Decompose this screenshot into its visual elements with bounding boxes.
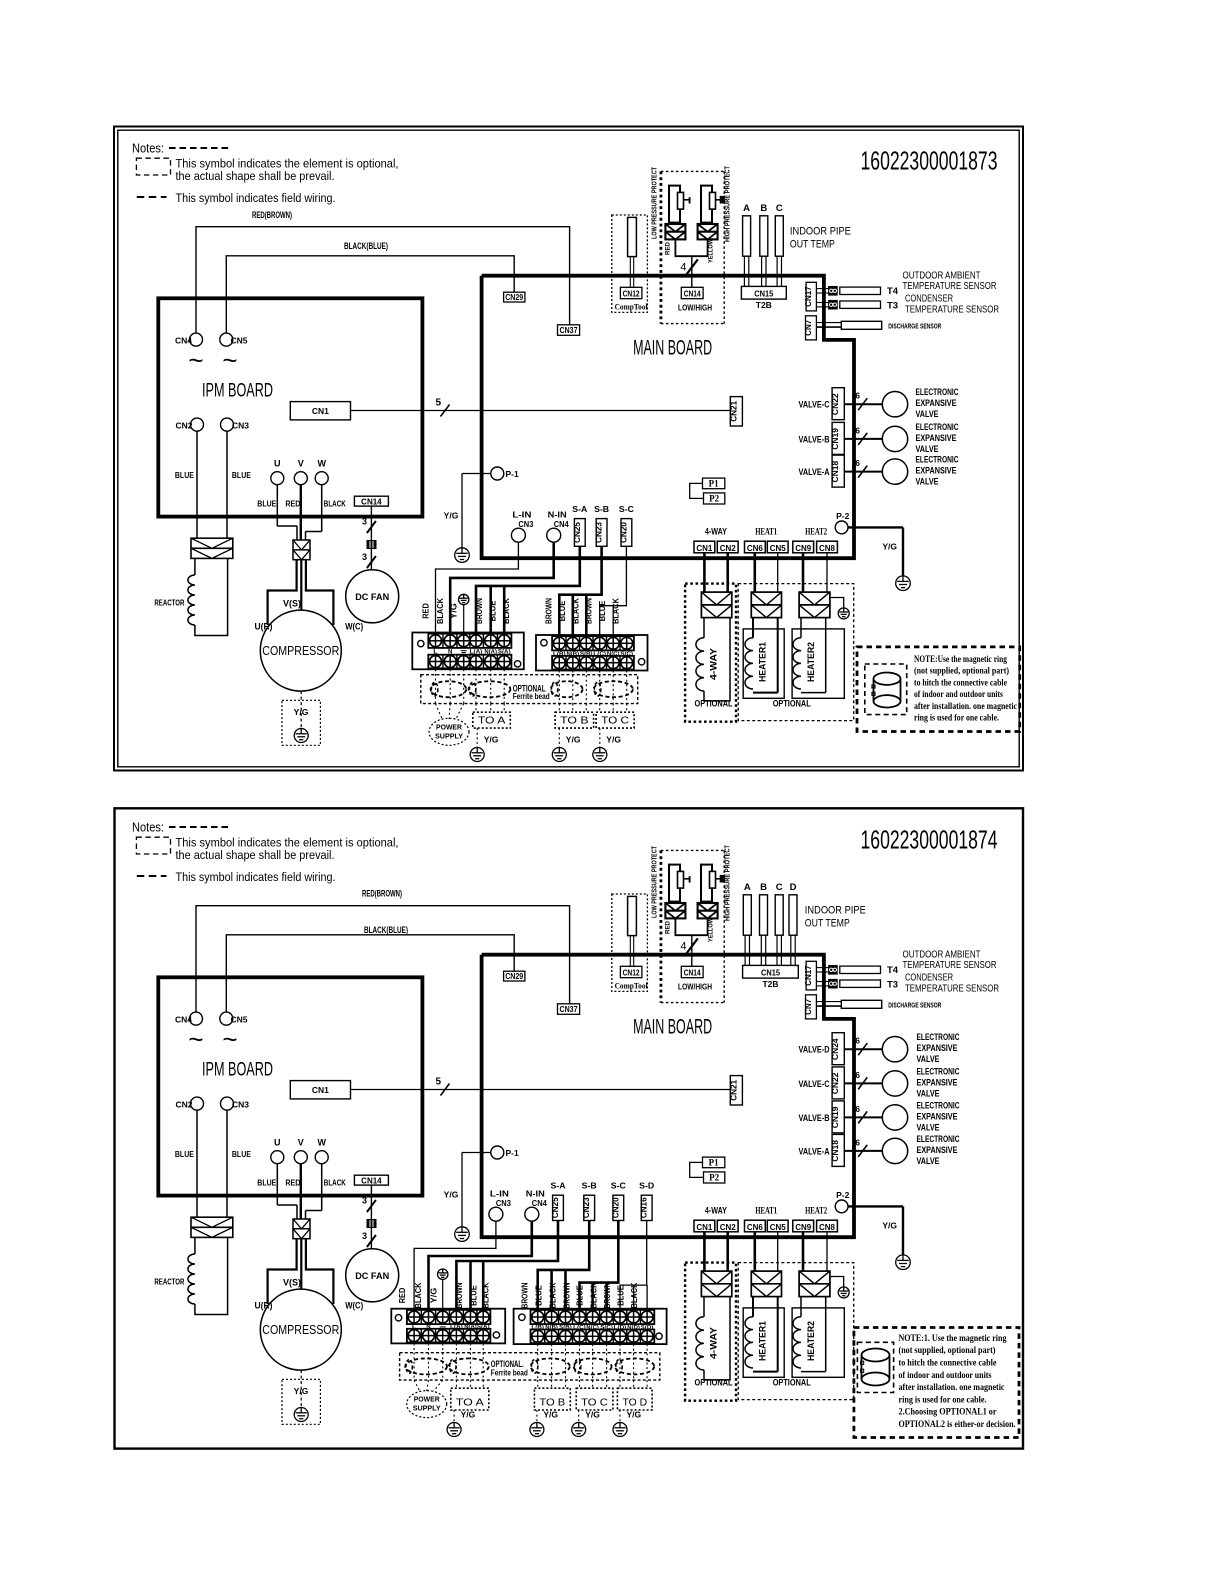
svg-text:C: C (776, 882, 783, 893)
svg-text:CompTool: CompTool (615, 982, 649, 991)
svg-text:Ferrite bead: Ferrite bead (513, 692, 550, 701)
svg-text:C: C (776, 203, 783, 214)
svg-text:6: 6 (855, 425, 860, 435)
svg-text:YELLOW: YELLOW (708, 239, 715, 263)
svg-text:CN1: CN1 (312, 406, 329, 416)
svg-text:BLACK: BLACK (571, 598, 580, 624)
svg-text:6: 6 (855, 458, 860, 468)
svg-text:P-2: P-2 (836, 1190, 850, 1200)
svg-text:TO A: TO A (456, 1397, 484, 1409)
svg-text:after installation. one magnet: after installation. one magnetic (914, 701, 1018, 712)
svg-text:NOTE:1. Use the magnetic ring: NOTE:1. Use the magnetic ring (899, 1333, 1007, 1344)
svg-text:T2B: T2B (762, 979, 778, 989)
svg-text:POWER: POWER (414, 1395, 441, 1404)
svg-text:BROWN: BROWN (603, 1282, 612, 1308)
svg-text:TO B: TO B (539, 1397, 565, 1409)
svg-text:BLUE: BLUE (257, 499, 276, 509)
svg-text:after installation. one magnet: after installation. one magnetic (899, 1382, 1006, 1393)
svg-text:CN5: CN5 (770, 1222, 786, 1232)
svg-text:VALVE: VALVE (916, 477, 939, 488)
svg-text:CN7: CN7 (804, 998, 813, 1015)
svg-text:N(B): N(B) (545, 1325, 558, 1331)
svg-text:RED: RED (398, 1287, 407, 1303)
svg-text:BLACK: BLACK (549, 1282, 558, 1308)
svg-text:CN29: CN29 (505, 293, 523, 302)
svg-text:TEMPERATURE SENSOR: TEMPERATURE SENSOR (905, 303, 999, 315)
svg-text:2.Choosing OPTIONAL1 or: 2.Choosing OPTIONAL1 or (899, 1407, 998, 1418)
svg-text:BLUE: BLUE (257, 1178, 276, 1188)
svg-text:V(S): V(S) (283, 598, 301, 608)
svg-text:Y/G: Y/G (627, 1410, 642, 1420)
svg-text:BROWN: BROWN (544, 598, 553, 624)
svg-text:Y/G: Y/G (484, 735, 499, 745)
svg-text:LOW/HIGH: LOW/HIGH (678, 303, 712, 313)
svg-text:CN5: CN5 (770, 543, 786, 553)
svg-text:CN18: CN18 (830, 460, 840, 482)
svg-text:LOW/HIGH: LOW/HIGH (678, 982, 712, 992)
svg-text:RED(BROWN): RED(BROWN) (252, 210, 292, 221)
svg-text:U: U (274, 459, 281, 469)
svg-text:ring is used for one cable.: ring is used for one cable. (899, 1394, 987, 1405)
svg-text:BLUE: BLUE (470, 1285, 479, 1306)
svg-text:S-B: S-B (594, 505, 609, 514)
svg-text:CN37: CN37 (560, 1005, 578, 1014)
svg-text:CN4: CN4 (175, 335, 192, 345)
svg-text:6: 6 (855, 1036, 860, 1046)
svg-text:Y/G: Y/G (294, 707, 309, 717)
svg-text:N(D): N(D) (627, 1325, 640, 1331)
svg-text:L(B): L(B) (553, 651, 566, 657)
svg-text:S(C): S(C) (620, 651, 633, 657)
svg-text:TO C: TO C (581, 1397, 608, 1409)
svg-text:CN1: CN1 (312, 1085, 329, 1095)
svg-text:HEAT2: HEAT2 (805, 527, 827, 537)
svg-text:YELLOW: YELLOW (708, 918, 715, 942)
svg-text:CN20: CN20 (619, 522, 628, 543)
svg-text:EXPANSIVE: EXPANSIVE (916, 433, 957, 444)
svg-text:6: 6 (855, 391, 860, 401)
svg-text:OPTIONAL: OPTIONAL (695, 1378, 733, 1388)
svg-text:BROWN: BROWN (563, 1282, 572, 1308)
svg-text:S-C: S-C (619, 505, 634, 514)
svg-text:EXPANSIVE: EXPANSIVE (917, 1145, 958, 1156)
svg-text:S-A: S-A (551, 1182, 566, 1191)
svg-text:L(C): L(C) (573, 1325, 586, 1331)
svg-text:COMPRESSOR: COMPRESSOR (262, 1323, 339, 1337)
svg-text:VALVE-A: VALVE-A (799, 1146, 830, 1157)
svg-text:16022300001873: 16022300001873 (861, 146, 998, 176)
svg-text:A: A (743, 203, 750, 214)
svg-text:U: U (274, 1138, 281, 1148)
svg-text:MAIN BOARD: MAIN BOARD (633, 1016, 712, 1039)
svg-text:CN6: CN6 (747, 543, 763, 553)
svg-text:S(B): S(B) (559, 1325, 572, 1331)
svg-text:BLACK: BLACK (590, 1282, 599, 1308)
svg-text:BLACK: BLACK (612, 598, 621, 624)
svg-text:Y/G: Y/G (461, 1410, 476, 1420)
svg-text:CN19: CN19 (830, 428, 840, 450)
svg-text:ELECTRONIC: ELECTRONIC (917, 1134, 960, 1145)
svg-text:N-IN: N-IN (548, 510, 567, 520)
svg-text:REACTOR: REACTOR (154, 598, 184, 608)
svg-text:CN24: CN24 (830, 1038, 840, 1060)
svg-text:CN25: CN25 (573, 522, 582, 543)
svg-text:4-WAY: 4-WAY (705, 1206, 727, 1216)
svg-text:P-1: P-1 (506, 469, 520, 479)
svg-text:DC FAN: DC FAN (355, 592, 389, 603)
svg-text:CN4: CN4 (532, 1199, 548, 1208)
svg-text:EXPANSIVE: EXPANSIVE (917, 1043, 958, 1054)
svg-text:L: L (412, 1325, 417, 1331)
svg-text:DISCHARGE SENSOR: DISCHARGE SENSOR (888, 1001, 941, 1010)
svg-text:V: V (298, 1138, 304, 1148)
svg-text:Y/G: Y/G (450, 603, 459, 619)
svg-text:U(R): U(R) (255, 1300, 273, 1310)
svg-text:CN3: CN3 (518, 520, 534, 529)
svg-text:SUPPLY: SUPPLY (413, 1404, 441, 1413)
svg-text:P1: P1 (709, 1158, 719, 1168)
svg-text:RED: RED (285, 1178, 300, 1188)
svg-text:N(A): N(A) (484, 650, 497, 656)
svg-text:DISCHARGE SENSOR: DISCHARGE SENSOR (888, 322, 941, 331)
svg-text:SUPPLY: SUPPLY (435, 731, 463, 740)
svg-text:BLACK: BLACK (630, 1282, 639, 1308)
svg-text:CN14: CN14 (361, 1176, 382, 1185)
svg-text:D: D (790, 882, 797, 893)
svg-text:INDOOR PIPE: INDOOR PIPE (805, 905, 866, 917)
svg-text:BROWN: BROWN (475, 598, 484, 624)
svg-text:HIGH PRESSURE PROTECT: HIGH PRESSURE PROTECT (723, 166, 732, 242)
svg-text:S(A): S(A) (498, 650, 511, 656)
svg-text:CN19: CN19 (830, 1106, 840, 1128)
svg-text:L(C): L(C) (593, 651, 606, 657)
svg-text:W: W (317, 1138, 326, 1148)
svg-text:VALVE: VALVE (916, 444, 939, 455)
svg-text:RED(BROWN): RED(BROWN) (362, 889, 402, 900)
svg-text:CN15: CN15 (754, 289, 773, 299)
svg-text:L(A): L(A) (470, 650, 483, 656)
svg-text:4-WAY: 4-WAY (709, 648, 719, 680)
svg-text:BLUE: BLUE (617, 1285, 626, 1306)
svg-text:TEMPERATURE SENSOR: TEMPERATURE SENSOR (903, 959, 997, 971)
svg-text:S(A): S(A) (477, 1325, 490, 1331)
svg-text:CN20: CN20 (611, 1197, 620, 1218)
svg-text:T3: T3 (887, 979, 898, 990)
svg-text:CN1: CN1 (696, 1222, 712, 1232)
svg-text:P-1: P-1 (506, 1148, 520, 1158)
svg-text:CN23: CN23 (595, 522, 604, 543)
svg-text:COMPRESSOR: COMPRESSOR (262, 644, 339, 658)
svg-text:BLACK: BLACK (502, 598, 511, 624)
svg-text:V: V (298, 459, 304, 469)
svg-text:HEAT2: HEAT2 (805, 1206, 827, 1216)
svg-text:BROWN: BROWN (521, 1282, 530, 1308)
svg-text:CN14: CN14 (361, 497, 382, 506)
svg-text:TO A: TO A (478, 715, 506, 727)
svg-text:S(D): S(D) (641, 1325, 654, 1331)
svg-text:CN3: CN3 (232, 1099, 249, 1109)
svg-text:EXPANSIVE: EXPANSIVE (917, 1077, 958, 1088)
svg-text:OPTIONAL: OPTIONAL (773, 1378, 811, 1388)
svg-text:CN2: CN2 (175, 420, 192, 430)
svg-text:ELECTRONIC: ELECTRONIC (916, 387, 959, 398)
svg-text:BLUE: BLUE (598, 601, 607, 622)
svg-text:~: ~ (222, 345, 237, 375)
svg-text:S-A: S-A (572, 505, 587, 514)
svg-text:N-IN: N-IN (526, 1189, 545, 1199)
svg-text:CN16: CN16 (640, 1197, 649, 1218)
svg-text:B: B (760, 882, 767, 893)
svg-text:T3: T3 (887, 300, 898, 311)
svg-text:Notes:: Notes: (132, 141, 164, 156)
svg-text:EXPANSIVE: EXPANSIVE (916, 398, 957, 409)
svg-text:Y/G: Y/G (543, 1410, 558, 1420)
svg-text:CN8: CN8 (819, 543, 835, 553)
svg-text:VALVE: VALVE (917, 1156, 940, 1167)
svg-text:6: 6 (855, 1070, 860, 1080)
svg-text:3: 3 (362, 1231, 367, 1241)
svg-text:CompTool: CompTool (615, 303, 649, 312)
svg-text:IPM BOARD: IPM BOARD (202, 1060, 273, 1081)
svg-text:HEAT1: HEAT1 (755, 527, 777, 537)
svg-text:CN5: CN5 (231, 335, 248, 345)
svg-text:~: ~ (222, 1024, 237, 1054)
svg-text:of indoor and outdoor units: of indoor and outdoor units (899, 1370, 992, 1381)
svg-text:CN2: CN2 (720, 543, 736, 553)
svg-text:OUT TEMP: OUT TEMP (790, 239, 835, 251)
svg-text:N(C): N(C) (586, 1325, 599, 1331)
svg-text:TEMPERATURE SENSOR: TEMPERATURE SENSOR (905, 982, 999, 994)
svg-text:4: 4 (680, 262, 686, 274)
svg-text:CN23: CN23 (582, 1197, 591, 1218)
svg-text:T4: T4 (887, 965, 899, 976)
svg-text:BLACK: BLACK (324, 1178, 347, 1188)
svg-text:6: 6 (855, 1137, 860, 1147)
svg-text:CN18: CN18 (830, 1140, 840, 1162)
svg-text:CN12: CN12 (623, 290, 640, 299)
svg-text:S-B: S-B (582, 1182, 597, 1191)
svg-text:3: 3 (362, 1196, 367, 1206)
svg-text:ELECTRONIC: ELECTRONIC (916, 422, 959, 433)
svg-text:N: N (426, 1325, 430, 1331)
svg-text:Notes:: Notes: (132, 820, 164, 835)
svg-text:VALVE: VALVE (917, 1054, 940, 1065)
svg-text:Y/G: Y/G (566, 735, 581, 745)
svg-text:the actual shape shall be prev: the actual shape shall be prevail. (176, 169, 335, 183)
svg-text:CN4: CN4 (554, 520, 570, 529)
svg-text:Y/G: Y/G (430, 1288, 439, 1304)
svg-text:HEATER2: HEATER2 (806, 1321, 816, 1361)
svg-text:CN25: CN25 (551, 1197, 560, 1218)
svg-text:REACTOR: REACTOR (154, 1277, 184, 1287)
svg-text:TEMPERATURE SENSOR: TEMPERATURE SENSOR (903, 280, 997, 292)
svg-text:TO D: TO D (622, 1397, 647, 1409)
svg-text:to hitch the connective cable: to hitch the connective cable (899, 1358, 998, 1369)
svg-text:IPM BOARD: IPM BOARD (202, 381, 273, 402)
svg-text:CN1: CN1 (696, 543, 712, 553)
svg-text:BLUE: BLUE (576, 1285, 585, 1306)
svg-text:CN14: CN14 (684, 290, 701, 299)
svg-text:CN4: CN4 (175, 1014, 192, 1024)
svg-text:B: B (760, 203, 767, 214)
svg-text:HEATER1: HEATER1 (758, 1321, 768, 1361)
svg-text:ELECTRONIC: ELECTRONIC (916, 455, 959, 466)
svg-text:L-IN: L-IN (512, 510, 531, 520)
svg-text:L-IN: L-IN (490, 1189, 509, 1199)
svg-text:BLUE: BLUE (232, 470, 251, 480)
svg-text:BLUE: BLUE (175, 470, 194, 480)
svg-text:VALVE: VALVE (916, 409, 939, 420)
svg-text:BLUE: BLUE (175, 1149, 194, 1159)
svg-text:VALVE-A: VALVE-A (799, 467, 830, 478)
svg-text:L: L (433, 650, 438, 656)
svg-text:HEAT1: HEAT1 (755, 1206, 777, 1216)
svg-text:CN37: CN37 (560, 326, 578, 335)
svg-text:ELECTRONIC: ELECTRONIC (917, 1032, 960, 1043)
svg-text:BLUE: BLUE (535, 1285, 544, 1306)
svg-text:Y/G: Y/G (444, 511, 459, 521)
svg-text:CN21: CN21 (729, 1079, 738, 1100)
svg-text:INDOOR PIPE: INDOOR PIPE (790, 226, 851, 238)
svg-text:Y/G: Y/G (882, 542, 897, 552)
svg-text:OUT TEMP: OUT TEMP (805, 918, 850, 930)
svg-text:RED: RED (665, 242, 672, 255)
svg-text:CN12: CN12 (623, 969, 640, 978)
svg-text:CN14: CN14 (684, 969, 701, 978)
svg-text:5: 5 (435, 398, 441, 409)
svg-text:5: 5 (435, 1077, 441, 1088)
svg-text:BROWN: BROWN (585, 598, 594, 624)
svg-text:VALVE-D: VALVE-D (799, 1045, 830, 1056)
svg-text:CN9: CN9 (795, 1222, 811, 1232)
svg-text:BROWN: BROWN (455, 1282, 464, 1308)
svg-text:CN17: CN17 (804, 965, 813, 986)
svg-text:LOW PRESSURE PROTECT: LOW PRESSURE PROTECT (650, 846, 659, 918)
svg-text:Y/G: Y/G (585, 1410, 600, 1420)
svg-text:VALVE-B: VALVE-B (799, 434, 830, 445)
svg-text:BLUE: BLUE (232, 1149, 251, 1159)
svg-text:N(B): N(B) (567, 651, 580, 657)
svg-text:16022300001874: 16022300001874 (861, 825, 998, 855)
svg-text:DC FAN: DC FAN (355, 1271, 389, 1282)
svg-text:of indoor and outdoor units: of indoor and outdoor units (914, 689, 1003, 700)
svg-text:Ferrite bead: Ferrite bead (491, 1369, 528, 1378)
svg-text:BLACK: BLACK (482, 1282, 491, 1308)
svg-text:OPTIONAL.: OPTIONAL. (491, 1359, 524, 1369)
svg-text:CN21: CN21 (729, 400, 738, 421)
svg-text:CN29: CN29 (505, 972, 523, 981)
svg-text:L(D): L(D) (614, 1325, 627, 1331)
svg-text:BLACK: BLACK (436, 598, 445, 624)
svg-text:W(C): W(C) (345, 621, 363, 631)
svg-text:V(S): V(S) (283, 1277, 301, 1287)
svg-text:A: A (744, 882, 751, 893)
svg-text:CN9: CN9 (795, 543, 811, 553)
svg-text:VALVE: VALVE (917, 1088, 940, 1099)
svg-text:BLUE: BLUE (558, 601, 567, 622)
svg-text:Y/G: Y/G (444, 1190, 459, 1200)
svg-text:S-D: S-D (639, 1182, 654, 1191)
svg-text:L(A): L(A) (450, 1325, 463, 1331)
svg-text:ring is used for one cable.: ring is used for one cable. (914, 713, 999, 724)
svg-text:BLUE: BLUE (488, 601, 497, 622)
svg-text:S(B): S(B) (580, 651, 593, 657)
svg-text:POWER: POWER (436, 722, 463, 731)
svg-text:W(C): W(C) (345, 1300, 363, 1310)
svg-text:CN2: CN2 (720, 1222, 736, 1232)
svg-text:MAIN BOARD: MAIN BOARD (633, 337, 712, 360)
svg-text:VALVE-C: VALVE-C (799, 1079, 830, 1090)
svg-text:to hitch the connective cable: to hitch the connective cable (914, 677, 1008, 688)
svg-text:4: 4 (680, 941, 686, 953)
svg-text:NOTE:Use the magnetic ring: NOTE:Use the magnetic ring (914, 654, 1007, 665)
svg-text:P2: P2 (709, 1173, 719, 1183)
svg-text:Y/G: Y/G (294, 1386, 309, 1396)
svg-text:CN7: CN7 (804, 319, 813, 336)
svg-text:VALVE-C: VALVE-C (799, 400, 830, 411)
svg-text:TO B: TO B (560, 715, 589, 727)
svg-text:S(C): S(C) (600, 1325, 613, 1331)
svg-text:6: 6 (855, 1104, 860, 1114)
svg-text:L(B): L(B) (531, 1325, 544, 1331)
svg-text:VALVE: VALVE (917, 1122, 940, 1133)
svg-text:HEATER2: HEATER2 (806, 642, 816, 682)
svg-text:TO C: TO C (601, 715, 629, 727)
svg-text:Y/G: Y/G (606, 735, 621, 745)
svg-text:CN3: CN3 (496, 1199, 512, 1208)
svg-text:U(R): U(R) (255, 621, 273, 631)
svg-text:HIGH PRESSURE PROTECT: HIGH PRESSURE PROTECT (723, 845, 732, 921)
svg-text:~: ~ (188, 345, 203, 375)
svg-text:CN22: CN22 (830, 393, 840, 415)
svg-text:BLACK: BLACK (324, 499, 347, 509)
svg-text:W: W (317, 459, 326, 469)
svg-text:3: 3 (362, 517, 367, 527)
svg-text:BLACK(BLUE): BLACK(BLUE) (344, 241, 388, 252)
svg-text:VALVE-B: VALVE-B (799, 1113, 830, 1124)
svg-text:This symbol indicates field wi: This symbol indicates field wiring. (176, 870, 336, 884)
svg-text:RED: RED (422, 603, 431, 619)
svg-text:RED: RED (285, 499, 300, 509)
svg-text:(not supplied, optional part): (not supplied, optional part) (899, 1345, 996, 1356)
svg-text:P2: P2 (709, 494, 719, 504)
svg-text:T2B: T2B (756, 300, 772, 310)
svg-text:S-C: S-C (611, 1182, 626, 1191)
svg-text:the actual shape shall be prev: the actual shape shall be prevail. (176, 848, 335, 862)
svg-text:HEATER1: HEATER1 (758, 642, 768, 682)
svg-text:ELECTRONIC: ELECTRONIC (917, 1100, 960, 1111)
svg-text:OPTIONAL: OPTIONAL (773, 699, 811, 709)
svg-text:CN2: CN2 (175, 1099, 192, 1109)
svg-text:BLACK: BLACK (414, 1282, 423, 1308)
svg-text:3: 3 (362, 552, 367, 562)
svg-text:RED: RED (665, 921, 672, 934)
svg-text:EXPANSIVE: EXPANSIVE (917, 1111, 958, 1122)
svg-text:This symbol indicates field wi: This symbol indicates field wiring. (176, 191, 336, 205)
svg-text:CN22: CN22 (830, 1072, 840, 1094)
svg-text:4-WAY: 4-WAY (709, 1327, 719, 1359)
svg-text:~: ~ (188, 1024, 203, 1054)
svg-text:ELECTRONIC: ELECTRONIC (917, 1066, 960, 1077)
svg-text:P-2: P-2 (836, 511, 850, 521)
svg-text:OPTIONAL2 is either-or decisio: OPTIONAL2 is either-or decision. (899, 1419, 1016, 1430)
svg-text:LOW PRESSURE PROTECT: LOW PRESSURE PROTECT (650, 167, 659, 239)
svg-text:N(A): N(A) (464, 1325, 477, 1331)
svg-text:CN3: CN3 (232, 420, 249, 430)
svg-text:CN8: CN8 (819, 1222, 835, 1232)
svg-text:CN5: CN5 (231, 1014, 248, 1024)
svg-text:(not supplied, optional part): (not supplied, optional part) (914, 666, 1009, 677)
